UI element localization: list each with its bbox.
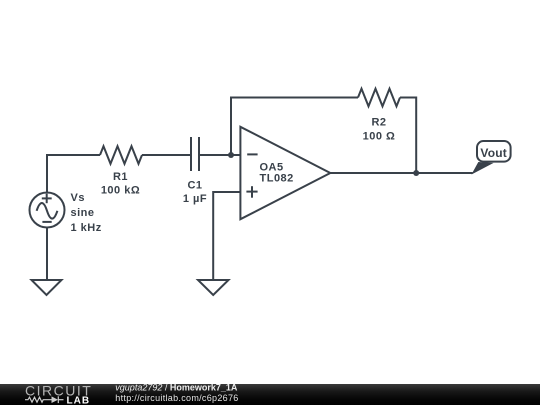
- svg-text:100 kΩ: 100 kΩ: [101, 184, 140, 196]
- svg-text:R2: R2: [371, 117, 386, 129]
- svg-text:C1: C1: [187, 180, 202, 192]
- svg-text:R1: R1: [113, 171, 128, 183]
- op-amp OA5 non-inverting pin mark: [246, 186, 257, 198]
- CircuitLab logo resistor-diode squiggle: [25, 396, 64, 403]
- svg-text:vgupta2792 / Homework7_1A: vgupta2792 / Homework7_1A: [115, 383, 238, 393]
- resistor R2: [358, 89, 400, 107]
- ground at op-amp + input: [198, 280, 229, 295]
- svg-text:http://circuitlab.com/c6p2676: http://circuitlab.com/c6p2676: [115, 393, 238, 403]
- svg-text:TL082: TL082: [260, 173, 294, 185]
- CircuitLab logo diode mark: [52, 396, 59, 403]
- node A junction (C1 / op-amp - / feedback): [228, 152, 234, 158]
- svg-text:1 µF: 1 µF: [183, 193, 207, 205]
- wire C1 to op-amp inverting input: [199, 154, 240, 156]
- svg-text:Vout: Vout: [480, 146, 507, 160]
- wire Vs bottom to ground: [46, 228, 48, 281]
- op-amp OA5 inverting pin mark: [247, 153, 257, 155]
- svg-text:100 Ω: 100 Ω: [363, 130, 396, 142]
- op-amp OA5 body: [240, 127, 330, 219]
- output flag Vout pointer: [473, 163, 492, 174]
- voltage source Vs: [30, 193, 65, 228]
- ground under Vs: [32, 280, 62, 295]
- wire R1 to C1: [142, 154, 190, 156]
- svg-text:1 kHz: 1 kHz: [71, 222, 102, 234]
- capacitor C1: [191, 137, 199, 171]
- node output junction (R2 / op-amp output): [413, 170, 419, 176]
- wire op-amp + input to ground: [213, 192, 240, 280]
- resistor R1: [100, 146, 142, 164]
- wire feedback up from node A: [231, 98, 358, 156]
- svg-text:OA5: OA5: [260, 161, 284, 173]
- wire R2 to output node: [400, 98, 416, 174]
- output flag Vout box: [477, 141, 511, 162]
- svg-text:Vs: Vs: [71, 192, 85, 204]
- footer bar: [0, 384, 540, 405]
- wire output to Vout flag: [330, 172, 472, 174]
- svg-text:sine: sine: [71, 207, 95, 219]
- wire from Vs top to R1: [47, 155, 100, 193]
- svg-text:LAB: LAB: [67, 396, 91, 405]
